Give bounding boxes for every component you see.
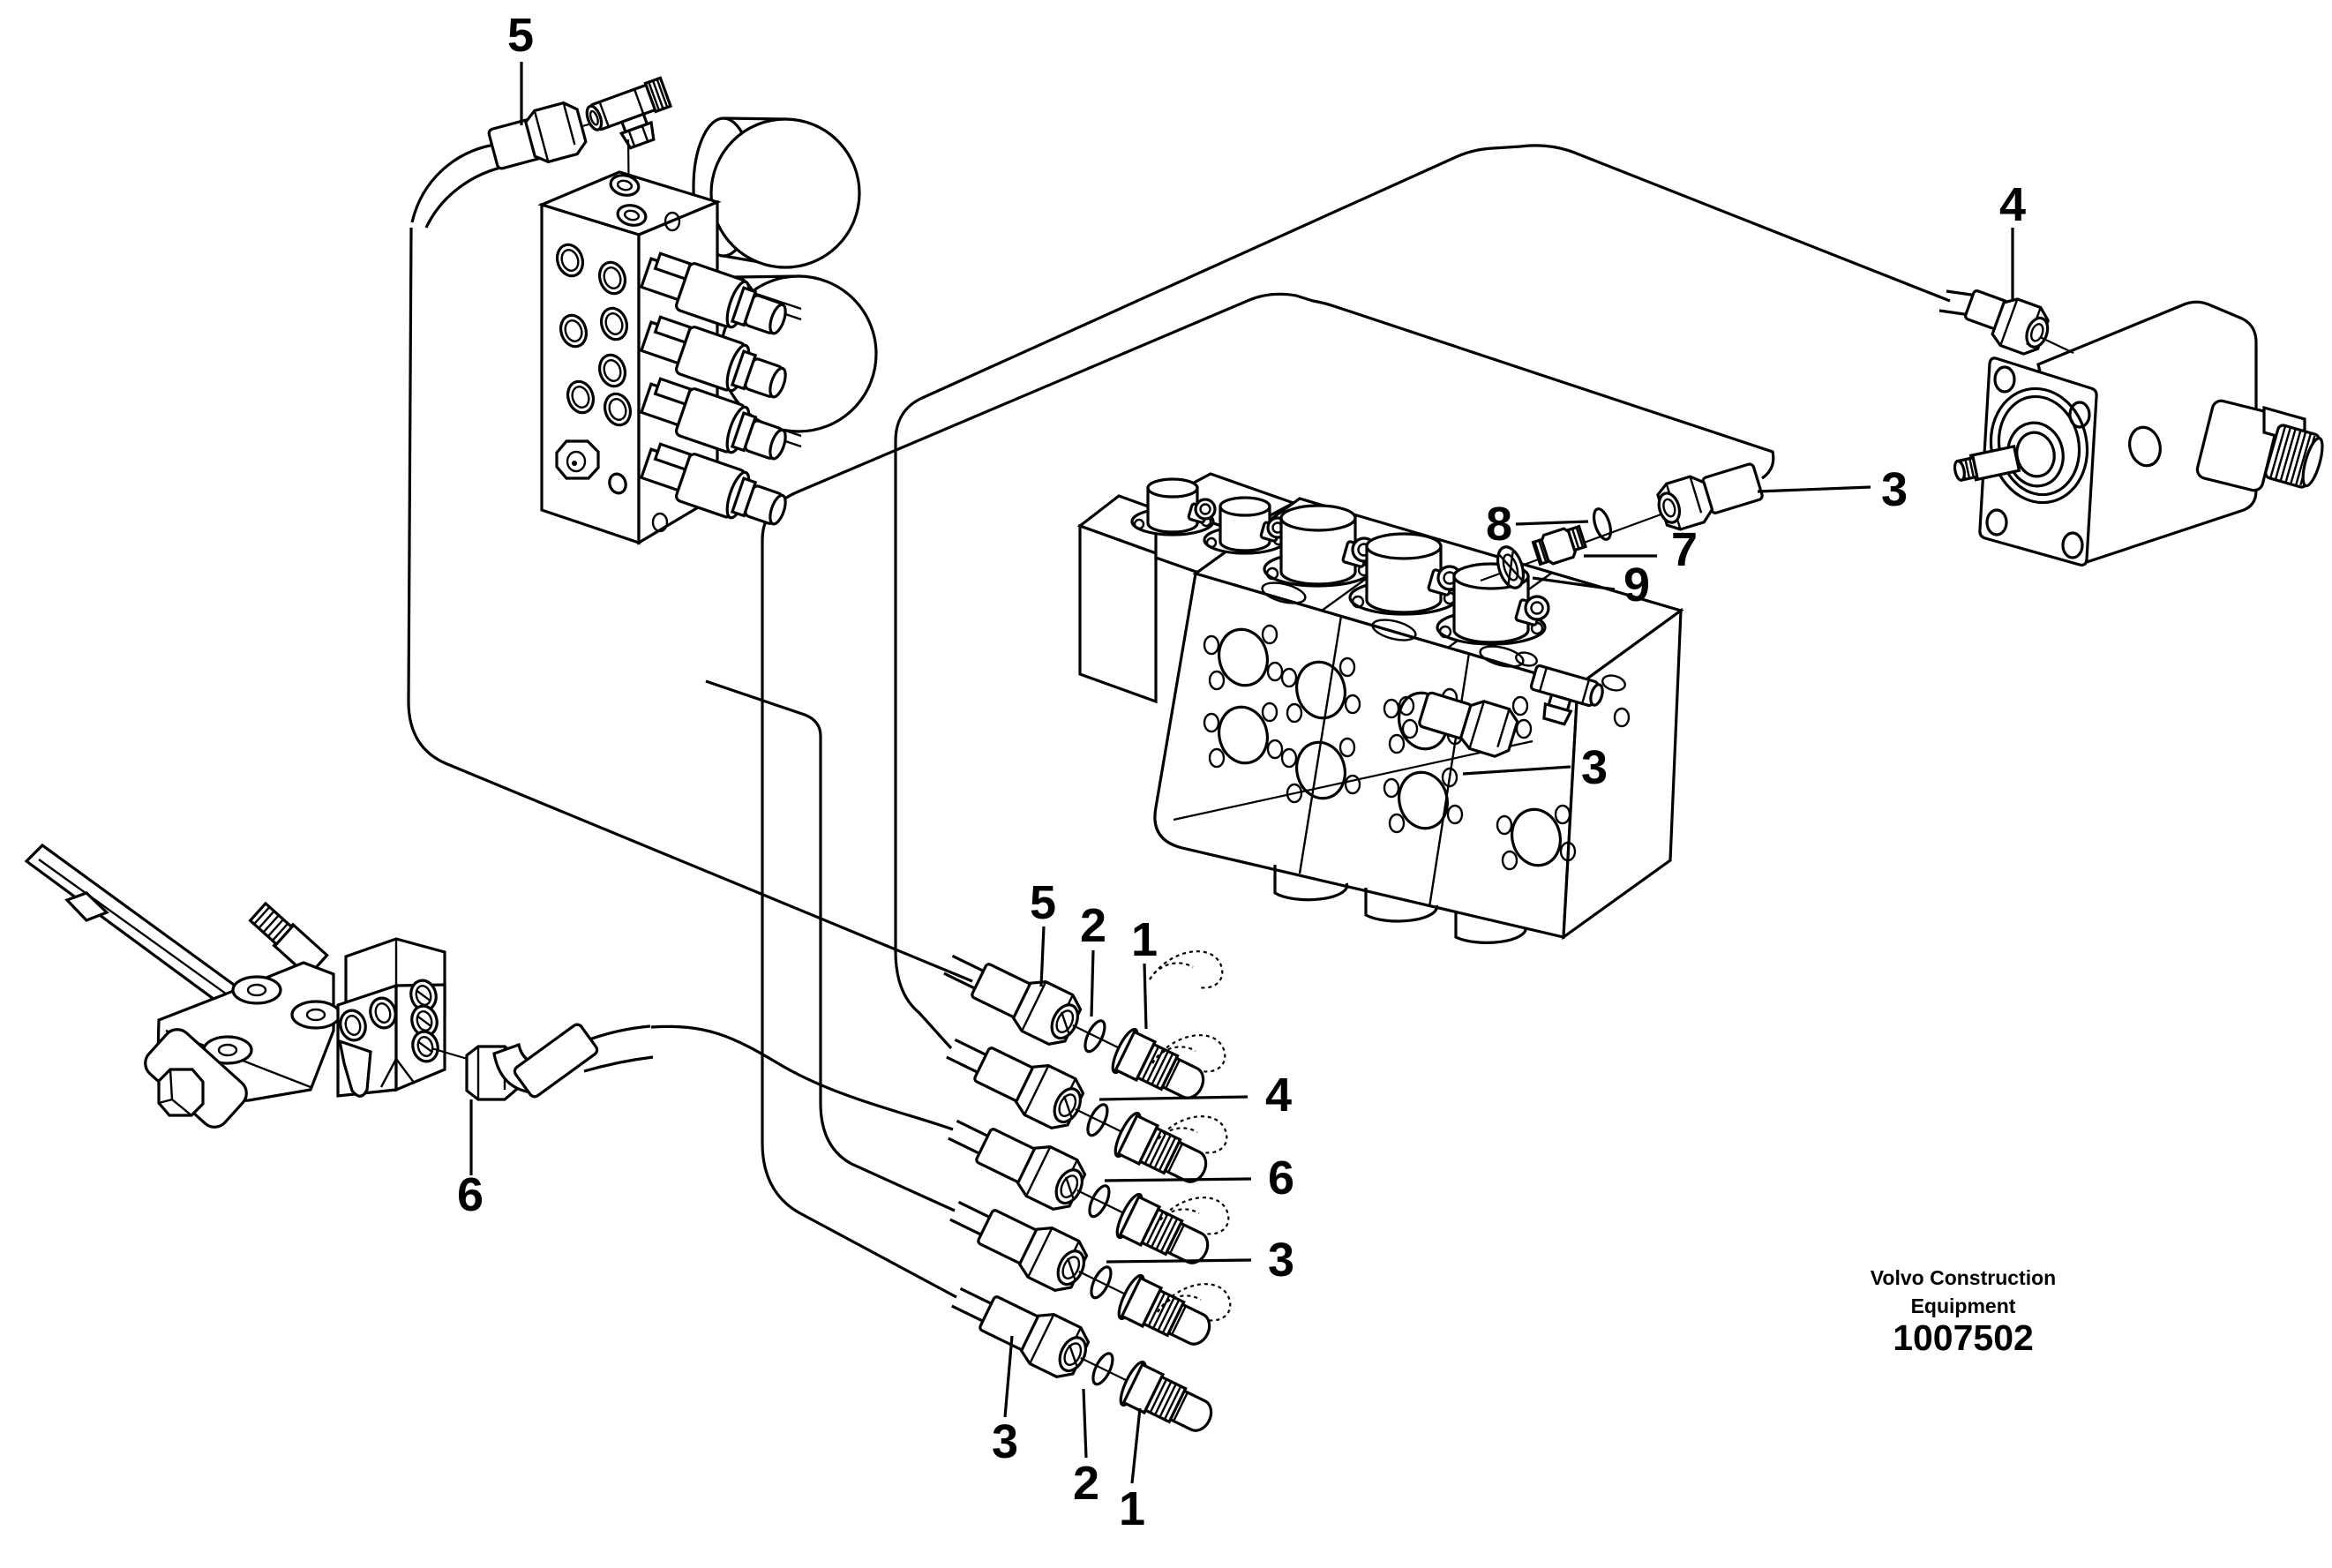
svg-text:1007502: 1007502 — [1893, 1317, 2034, 1358]
svg-text:4: 4 — [1265, 1069, 1292, 1122]
svg-text:3: 3 — [992, 1415, 1018, 1468]
svg-text:Volvo Construction: Volvo Construction — [1871, 1266, 2056, 1289]
svg-text:1: 1 — [1119, 1482, 1145, 1535]
svg-text:5: 5 — [1030, 876, 1056, 929]
svg-text:3: 3 — [1581, 741, 1608, 794]
svg-text:3: 3 — [1881, 463, 1908, 516]
svg-text:2: 2 — [1073, 1457, 1099, 1510]
svg-text:6: 6 — [457, 1168, 484, 1221]
svg-text:7: 7 — [1671, 523, 1698, 576]
svg-text:9: 9 — [1623, 559, 1650, 611]
svg-text:3: 3 — [1268, 1234, 1294, 1287]
svg-text:Equipment: Equipment — [1911, 1294, 2016, 1317]
svg-text:4: 4 — [1999, 178, 2026, 231]
svg-text:5: 5 — [507, 9, 534, 62]
svg-text:6: 6 — [1268, 1152, 1294, 1204]
svg-text:2: 2 — [1080, 899, 1106, 952]
svg-text:1: 1 — [1131, 913, 1158, 966]
svg-text:8: 8 — [1486, 498, 1512, 551]
